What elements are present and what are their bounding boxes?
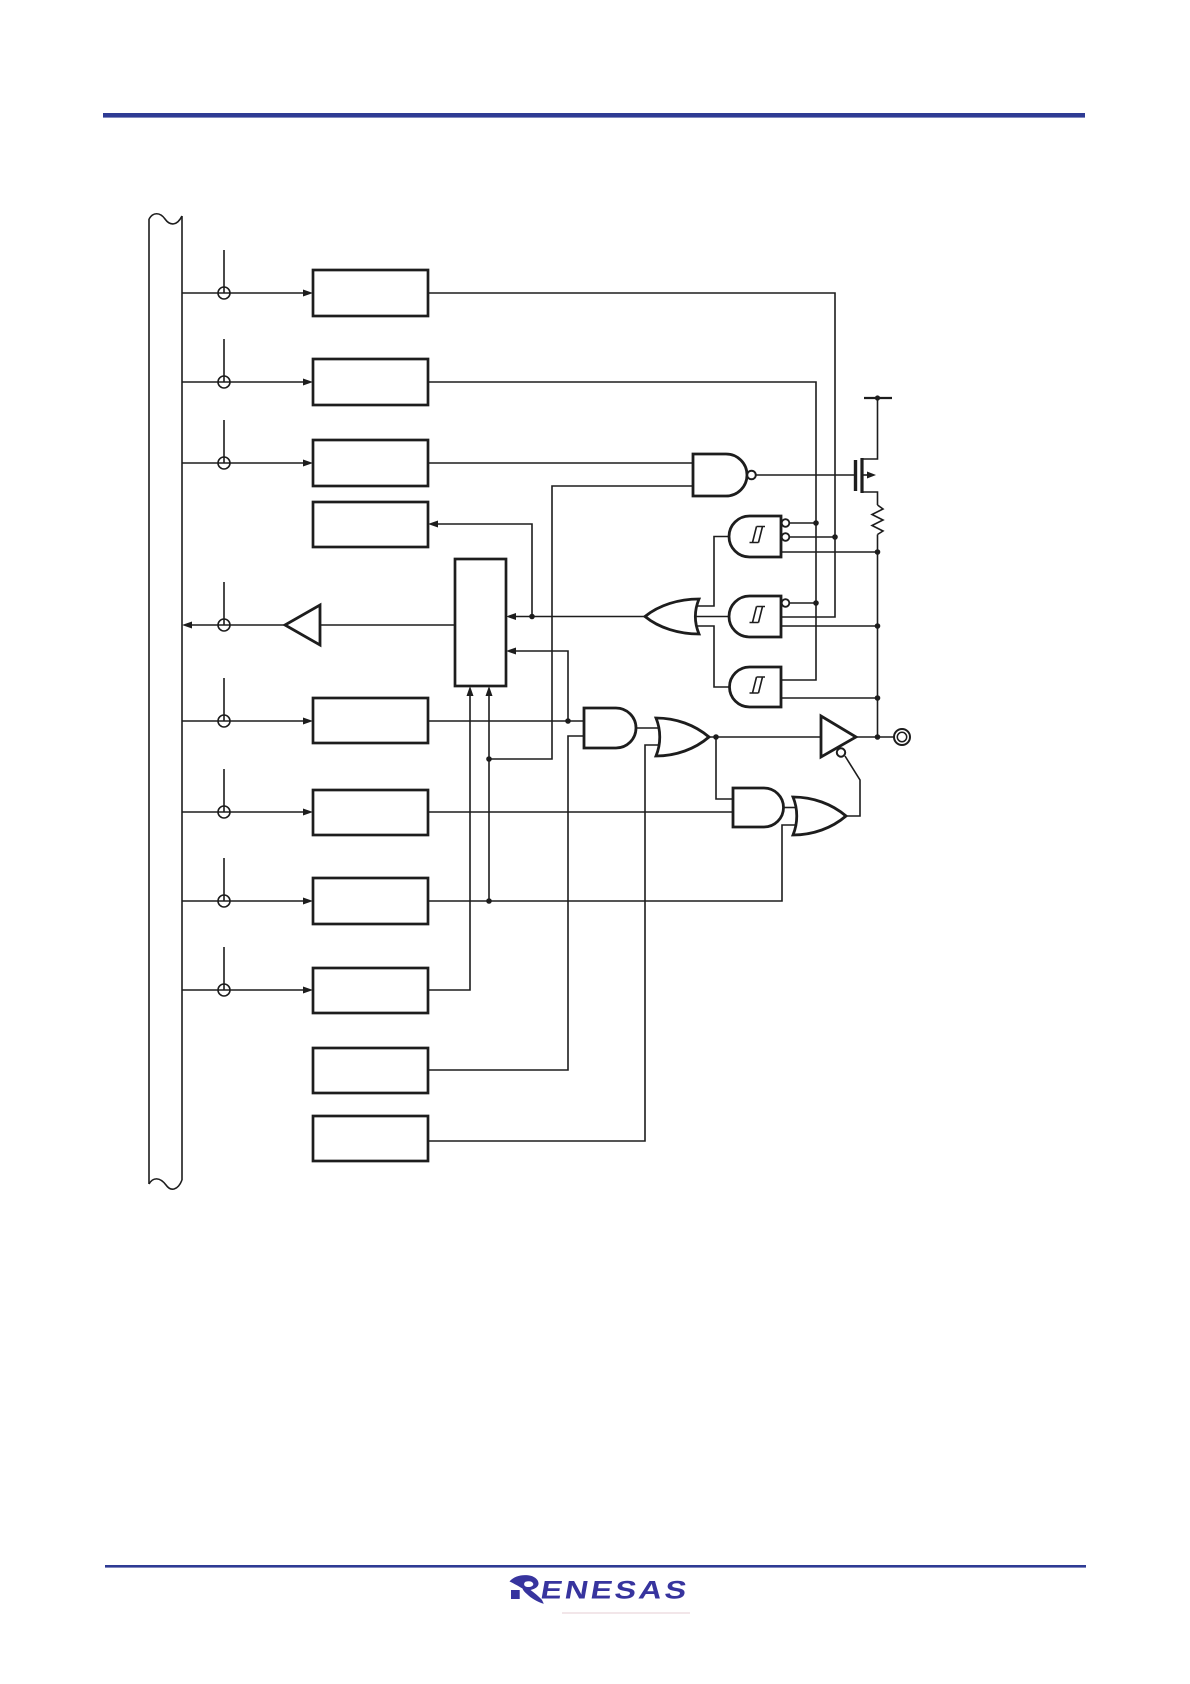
wire U4b input 1 (790, 602, 817, 604)
wire NAND input 2 from direction net (489, 486, 693, 759)
Renesas logo (510, 1575, 692, 1604)
wire R9 output to AND U7 input 2 (428, 736, 584, 1070)
VCC rail (864, 395, 892, 400)
wire U8 output to output buffer U11 (709, 736, 821, 738)
register R5 (313, 698, 428, 743)
register R2 (313, 359, 428, 405)
wire U4c input 2 from pad (781, 697, 878, 699)
junction dot U8 output (713, 734, 719, 740)
svg-text:ENESAS: ENESAS (538, 1577, 691, 1605)
wire U4c output to OR U6 input 3 (697, 626, 729, 687)
junction dot direction net upper (486, 756, 492, 762)
junction dot net V835 (832, 534, 838, 540)
register R9 (313, 1048, 428, 1093)
wire U10 output to U11 enable bubble (845, 756, 860, 816)
register R6 (313, 790, 428, 835)
junction dot on read mux input net (529, 614, 535, 620)
bus tap node T4 (218, 619, 230, 631)
junction dot net V816 upper (813, 520, 819, 526)
schmitt trigger U4c (730, 667, 781, 707)
AND gate U7 (584, 708, 636, 748)
arrow into read mux bottom 2 (486, 686, 493, 696)
wire direction net to read mux bottom 2 (488, 696, 490, 901)
junction dot pad net 2 (875, 623, 881, 629)
OR gate U8 (656, 718, 709, 756)
wire R3 output to NAND input 1 (428, 462, 693, 464)
faint tagline (562, 1612, 690, 1614)
bus tap node T1 (218, 287, 230, 299)
wire R1 output to net V835 (428, 293, 835, 617)
footer rule (105, 1565, 1086, 1568)
wire U4a input 2 (790, 536, 836, 538)
arrow into R7 (303, 898, 313, 905)
wire U11 output to pad (856, 736, 894, 738)
wire U4a input 3 from pad (781, 551, 878, 553)
arrow into R5 (303, 718, 313, 725)
wire pad net vertical (877, 535, 879, 738)
arrow into bus (read) (182, 622, 192, 629)
output buffer U11 (821, 716, 856, 757)
arrow into R3 (303, 460, 313, 467)
junction dot pad net 1 (875, 549, 881, 555)
wire R5 output to AND U7 input 1 (428, 720, 584, 722)
arrow into read mux bottom 1 (467, 686, 474, 696)
junction dot net V816 lower (813, 600, 819, 606)
wire U4a input 1 (790, 522, 817, 524)
pad P1 (894, 729, 910, 745)
wire U4b input 3 from pad (781, 625, 878, 627)
wire R8 output to read mux bottom 1 (428, 696, 470, 990)
bus tap node T3 (218, 457, 230, 469)
junction dot R5 net (565, 718, 571, 724)
OR gate U10 (793, 797, 846, 835)
wire R2 output to net V816 (428, 382, 816, 680)
wire bus row 7 (182, 858, 305, 901)
AND gate U9 (733, 788, 784, 827)
register R8 (313, 968, 428, 1013)
arrow into R4 right edge (428, 521, 438, 528)
wire OR U6 output to read mux (515, 616, 645, 618)
register R7 (313, 878, 428, 924)
schmitt trigger U4b (729, 596, 789, 637)
wire bus row 6 (182, 769, 305, 812)
bus tap node T5 (218, 715, 230, 727)
read mux U1 (455, 559, 506, 686)
wire U7 output to OR U8 (636, 727, 661, 729)
junction dot pad net 3 (875, 695, 881, 701)
OR gate U6 left-facing (645, 599, 699, 634)
wire bus row 1 (182, 250, 305, 293)
wire U8 output branch to AND U9 input 1 (716, 737, 733, 799)
header rule (103, 113, 1085, 118)
bus tap node T8 (218, 984, 230, 996)
wire read mux to read buffer (320, 624, 455, 626)
schmitt trigger U4a (729, 516, 789, 557)
wire bus row 8 (182, 947, 305, 990)
wire U9 output to OR U10 (784, 807, 799, 809)
wire R10 output to OR U8 input 2 (428, 745, 659, 1141)
arrow into R1 (303, 290, 313, 297)
wire bus row 5 (182, 678, 305, 721)
NAND gate U3 (693, 454, 756, 496)
wire read mux input 2 from R5 net (515, 651, 568, 721)
wire U4a output to OR U6 input 1 (697, 537, 729, 607)
register R4 (313, 502, 428, 547)
wire R4 input from read mux net (438, 524, 532, 617)
transistor Q1 pull-up PMOS (856, 398, 878, 505)
wire bus row 3 (182, 420, 305, 463)
arrow into read mux right edge input 1 (506, 613, 516, 620)
bus tap node T2 (218, 376, 230, 388)
bus tap node T7 (218, 895, 230, 907)
register R10 (313, 1116, 428, 1161)
arrow into R2 (303, 379, 313, 386)
resistor R11 (872, 505, 883, 535)
wire bus row 2 (182, 339, 305, 382)
wire U4b output to OR U6 input 2 (693, 616, 729, 618)
internal bus (149, 214, 182, 1189)
junction dot pad net 4 (875, 734, 881, 740)
bus tap node T6 (218, 806, 230, 818)
wire NAND output to Q1 gate (756, 474, 855, 476)
read buffer U2 (285, 605, 320, 645)
arrow into R8 (303, 987, 313, 994)
junction dot direction net lower (486, 898, 492, 904)
arrow into R6 (303, 809, 313, 816)
wire R7 output direction net to OR U10 input 2 (428, 825, 796, 901)
register R3 (313, 440, 428, 486)
wire bus read row (191, 582, 285, 625)
wire R6 output to AND U9 input 2 (428, 811, 733, 813)
register R1 (313, 270, 428, 316)
arrow into read mux right edge input 2 (506, 648, 516, 655)
